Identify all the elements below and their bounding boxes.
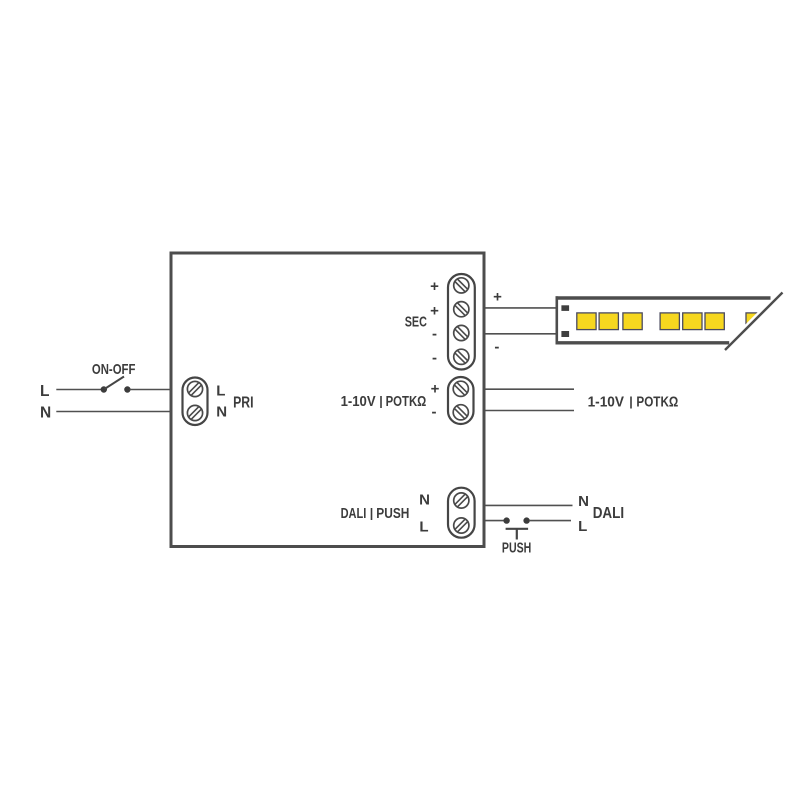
screw PRI-N bbox=[187, 405, 202, 420]
svg-text:DALI: DALI bbox=[593, 505, 625, 522]
svg-text:N: N bbox=[216, 404, 227, 421]
svg-text:+: + bbox=[430, 302, 439, 319]
wire DALI L out (right of push) bbox=[529, 520, 571, 522]
screw SEC-1 bbox=[454, 278, 469, 293]
svg-text:N: N bbox=[578, 493, 589, 510]
svg-text:|: | bbox=[379, 395, 383, 409]
LED 6 bbox=[705, 313, 724, 330]
LED 4 bbox=[660, 313, 679, 330]
LED strip left edge bbox=[555, 296, 558, 344]
screw DALI-N bbox=[454, 493, 469, 508]
LED strip cut diagonal bbox=[725, 293, 783, 351]
LED strip top edge bbox=[556, 296, 771, 299]
svg-text:N: N bbox=[40, 405, 51, 422]
svg-text:-: - bbox=[432, 349, 437, 366]
svg-text:ON-OFF: ON-OFF bbox=[92, 361, 135, 378]
push button stem bbox=[516, 529, 518, 540]
switch S1 contact dot right bbox=[124, 386, 130, 392]
terminal block DALI bbox=[448, 488, 475, 538]
LED 1 bbox=[577, 313, 596, 330]
svg-text:L: L bbox=[40, 383, 49, 400]
svg-text:|: | bbox=[629, 395, 633, 409]
wire DALI L out (left of push) bbox=[486, 520, 505, 522]
push contact dot right bbox=[523, 517, 529, 523]
svg-text:+: + bbox=[431, 381, 440, 398]
svg-text:1-10V: 1-10V bbox=[341, 394, 376, 410]
LED 5 bbox=[683, 313, 702, 330]
svg-text:L: L bbox=[419, 519, 428, 536]
svg-text:PUSH: PUSH bbox=[502, 540, 531, 557]
svg-text:PRI: PRI bbox=[233, 394, 253, 411]
svg-text:PUSH: PUSH bbox=[376, 506, 409, 522]
svg-text:L: L bbox=[578, 518, 587, 535]
svg-text:POTKΩ: POTKΩ bbox=[386, 394, 427, 410]
push button bar bbox=[506, 528, 528, 530]
driver box U1 bbox=[171, 253, 484, 547]
svg-text:L: L bbox=[216, 382, 225, 399]
svg-text:1-10V: 1-10V bbox=[588, 395, 625, 411]
LED 2 bbox=[599, 313, 618, 330]
LED strip bottom edge bbox=[556, 341, 730, 344]
screw PRI-L bbox=[187, 381, 202, 396]
screw SEC-4 bbox=[454, 349, 469, 364]
svg-text:DALI: DALI bbox=[341, 506, 367, 522]
LED 7 (cut) bbox=[746, 313, 765, 330]
terminal block 1-10V bbox=[448, 377, 474, 424]
wire 1-10V + out bbox=[486, 388, 575, 390]
screw 1-10V + bbox=[453, 381, 468, 396]
svg-text:-: - bbox=[432, 326, 437, 343]
screw SEC-2 bbox=[454, 302, 469, 317]
wire 1-10V - out bbox=[486, 410, 575, 412]
screw SEC-3 bbox=[454, 325, 469, 340]
svg-text:+: + bbox=[493, 289, 502, 306]
screw 1-10V - bbox=[453, 405, 468, 420]
wire SEC + to LED strip bbox=[486, 307, 558, 309]
wire L to switch bbox=[56, 389, 102, 391]
LED 3 bbox=[623, 313, 642, 330]
svg-text:-: - bbox=[494, 339, 499, 356]
wire L switch to box bbox=[130, 389, 172, 391]
switch S1 lever bbox=[105, 377, 125, 390]
terminal block PRI bbox=[183, 378, 208, 426]
wire DALI N out bbox=[486, 504, 573, 506]
solder pad - bbox=[561, 331, 569, 337]
svg-text:+: + bbox=[430, 278, 439, 295]
svg-text:SEC: SEC bbox=[405, 314, 427, 331]
push contact dot left bbox=[503, 517, 509, 523]
svg-text:POTKΩ: POTKΩ bbox=[636, 395, 678, 411]
screw DALI-L bbox=[454, 518, 469, 533]
switch S1 contact dot left bbox=[101, 386, 107, 392]
svg-text:|: | bbox=[370, 507, 374, 521]
terminal block SEC bbox=[448, 274, 475, 370]
wire SEC - to LED strip bbox=[486, 333, 558, 335]
wire N to box bbox=[56, 411, 171, 413]
solder pad + bbox=[561, 305, 569, 311]
svg-text:-: - bbox=[432, 404, 437, 421]
svg-text:N: N bbox=[419, 491, 430, 508]
